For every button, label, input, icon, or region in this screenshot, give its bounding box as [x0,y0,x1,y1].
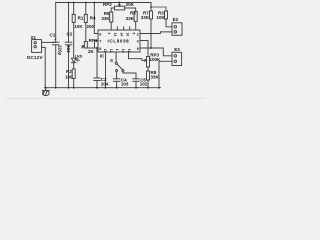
wire pin11 ground [105,52,107,88]
svg-text:E2: E2 [173,17,179,22]
svg-text:33K: 33K [126,16,135,21]
capacitor C3 [94,77,100,79]
node dot gnd C1 [55,87,57,89]
svg-text:20K: 20K [126,2,135,7]
pin stub 15 [129,27,131,30]
svg-text:IC: IC [100,53,105,58]
svg-text:11: 11 [103,49,107,53]
node dot gnd R8 [147,87,149,89]
svg-text:10K: 10K [74,24,83,29]
potentiometer RP1 [84,42,87,49]
svg-text:RP1: RP1 [89,38,98,43]
svg-text:100K: 100K [150,57,162,62]
svg-text:E3: E3 [174,47,180,52]
capacitor C4 [113,78,120,80]
resistor R3 [151,7,166,11]
svg-text:200: 200 [87,24,95,29]
svg-text:10: 10 [127,49,131,53]
wire X1 plus lead [42,41,56,43]
svg-text:R2: R2 [66,69,72,74]
node dot rail RP2 wiper [119,2,121,4]
svg-text:3: 3 [137,39,139,43]
wire pin6 to rail [94,3,98,34]
capacitor C5 [133,78,139,80]
faint page rule at bottom [6,98,206,100]
resistor R5 [110,12,113,22]
svg-text:12: 12 [109,49,113,53]
node dot rail R4 [85,2,87,4]
svg-text:DC12V: DC12V [27,55,44,60]
node dot rail pin6 [93,2,95,4]
svg-text:10: 10 [125,33,129,37]
pin stub 13 [116,27,118,30]
svg-text:7: 7 [99,39,101,43]
svg-text:14: 14 [121,49,125,53]
connector E2 [172,23,182,36]
pin stub 14 [123,27,125,30]
wire pin2 row to E2 [140,32,172,34]
svg-text:2: 2 [137,32,139,36]
resistor R1 [73,3,75,15]
node dot gnd C4 [116,87,118,89]
svg-text:9: 9 [137,47,139,51]
node dot gnd R2 [73,87,75,89]
node dot pin9 R7 [150,47,152,49]
node dot rail C2 [68,2,70,4]
svg-text:33K: 33K [151,74,160,79]
switch S [115,52,117,62]
node dot E3 gnd [158,87,160,89]
wire pin7 stub [95,41,99,49]
node dot rail R1 [73,2,75,4]
svg-text:R6: R6 [130,11,136,16]
node dot gnd C3 [96,87,98,89]
node dot gnd X1 [44,87,46,89]
svg-text:S: S [110,58,113,63]
LED D [72,58,76,63]
svg-text:6: 6 [99,32,101,36]
wire pin3 row to RP3 [140,41,148,57]
wire E3 pin2 to ground [159,61,172,87]
ground [45,88,47,91]
svg-text:C2: C2 [67,32,73,37]
svg-text:33K: 33K [101,16,110,21]
connector X1 [32,40,42,53]
svg-text:100: 100 [65,75,73,80]
svg-text:8: 8 [99,47,101,51]
connector E3 [172,52,182,65]
svg-text:1: 1 [115,49,119,51]
capacitor C2 [68,3,70,43]
potentiometer RP2 [114,6,124,10]
svg-text:102: 102 [140,82,148,87]
svg-text:ICL8038: ICL8038 [108,39,130,44]
svg-text:104: 104 [66,45,71,53]
node dot gnd C2 [68,87,70,89]
wire pin9 row to E3 [140,48,172,56]
wire top rail V+ [56,2,151,4]
svg-text:14: 14 [119,33,123,37]
wire RP2 left lead [111,8,114,12]
resistor R8 [147,71,150,80]
svg-text:+: + [54,36,57,41]
capacitor C1 [55,3,57,43]
node dot gnd pin11 [105,87,107,89]
svg-text:2K: 2K [88,49,95,54]
wire RP2 right lead [125,8,136,11]
potentiometer RP3 [147,57,150,68]
wire X1 minus lead [42,47,46,87]
svg-text:LED: LED [75,55,83,59]
wire pin8 node to C3 [96,48,98,78]
node dot rail R7 [150,6,152,8]
wire S contact to C4 [116,72,118,79]
resistor R7 [150,3,152,12]
svg-text:10K: 10K [157,15,166,20]
svg-text:X1: X1 [31,35,37,40]
wire pin12 to RP3 node [129,52,143,60]
node dot pin8 C3 [96,47,98,49]
resistor R4 [85,3,87,15]
svg-text:220μ: 220μ [58,45,63,55]
node dot gnd C5 [135,87,137,89]
svg-text:33K: 33K [141,15,150,20]
svg-text:104: 104 [101,81,109,86]
resistor R2 [72,69,75,79]
wire ground rail [45,87,161,89]
svg-text:R1: R1 [78,15,84,20]
svg-text:4: 4 [107,33,111,35]
svg-text:13: 13 [113,33,117,37]
svg-text:R4: R4 [90,15,96,20]
svg-text:103: 103 [121,82,129,87]
wire S contact to C5 [123,72,136,79]
op-amp U1 IC box ICL8038 [98,30,140,52]
svg-text:5: 5 [132,33,136,35]
resistor R6 [134,11,137,21]
svg-text:RP2: RP2 [103,2,112,7]
